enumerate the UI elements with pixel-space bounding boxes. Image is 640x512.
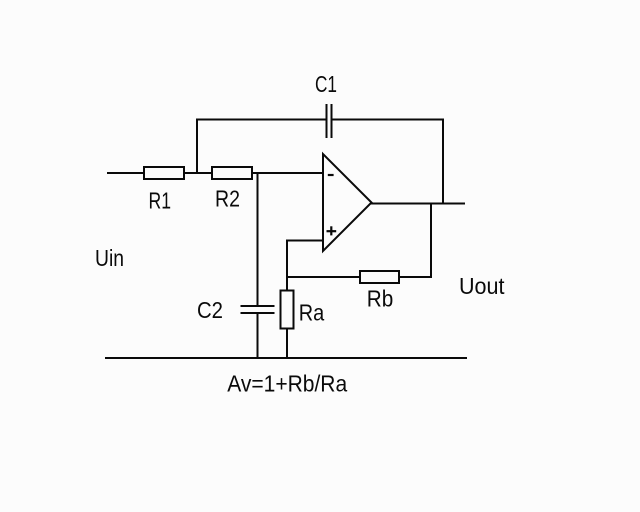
resistor Rb (360, 271, 399, 283)
wire op-amp output (371, 203, 465, 205)
wire Rb to output branch (399, 276, 432, 278)
wire top feedback left segment (196, 119, 327, 121)
svg-text:C2: C2 (197, 297, 223, 323)
wire top feedback right segment (332, 119, 445, 121)
svg-text:Uout: Uout (459, 273, 505, 299)
svg-text:Ra: Ra (299, 299, 325, 325)
op-amp inverting input minus sign (328, 174, 334, 176)
op-amp U1 (323, 154, 372, 251)
wire feedback branch up to output (430, 204, 432, 279)
ground rail (105, 357, 467, 359)
capacitor C2 (241, 306, 275, 313)
svg-text:Av=1+Rb/Ra: Av=1+Rb/Ra (227, 370, 347, 396)
wire Ra bottom to ground (286, 329, 288, 360)
capacitor C1 (327, 104, 332, 138)
op-amp non-inverting input plus sign (327, 226, 337, 235)
svg-text:Rb: Rb (367, 285, 394, 311)
wire non-inverting input left (287, 240, 323, 242)
wire C2 bottom to ground (257, 313, 259, 359)
wire R1 to R2 (184, 172, 212, 174)
svg-text:R2: R2 (215, 186, 240, 212)
wire down from plus input to Ra/Rb node (286, 240, 288, 291)
svg-text:C1: C1 (315, 71, 337, 97)
wire node down from R2 output to C2 (257, 173, 259, 306)
resistor R1 (144, 167, 184, 179)
wire junction node up to feedback line (196, 119, 198, 175)
resistor R2 (212, 167, 252, 179)
wire input to R1 (107, 172, 144, 174)
svg-text:R1: R1 (149, 188, 172, 214)
wire feedback down to output (442, 119, 444, 204)
wire node to Rb (286, 276, 360, 278)
resistor Ra (281, 291, 294, 329)
wire R2 to op-amp inverting input (252, 172, 323, 174)
svg-text:Uin: Uin (95, 245, 124, 271)
